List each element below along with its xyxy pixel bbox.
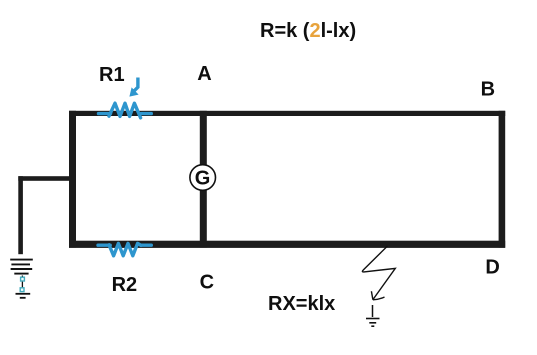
svg-text:R=k (2l-lx): R=k (2l-lx): [260, 20, 356, 42]
svg-text:C: C: [200, 271, 214, 293]
svg-text:R1: R1: [99, 64, 125, 86]
svg-text:RX=klx: RX=klx: [268, 293, 335, 315]
selection handle top: [21, 277, 25, 281]
label RX=klx: [268, 293, 335, 315]
wire bottom CD: [69, 241, 505, 248]
wire left side: [69, 111, 76, 248]
selection handle bottom: [20, 288, 24, 292]
svg-text:A: A: [197, 63, 211, 85]
node A label: [197, 63, 211, 85]
svg-text:R2: R2: [112, 274, 138, 296]
galvanometer G: [190, 165, 216, 191]
svg-text:G: G: [195, 168, 211, 190]
battery cell: [10, 260, 33, 274]
wire middle branch G-C: [200, 190, 207, 248]
node C label: [200, 271, 214, 293]
node B label: [481, 78, 495, 100]
ground lead under jockey: [372, 305, 374, 317]
wire right side B-D: [499, 111, 506, 248]
wire battery to ground: [21, 276, 23, 293]
svg-text:D: D: [485, 257, 499, 279]
arrow at R1: [129, 78, 138, 97]
svg-text:B: B: [481, 78, 495, 100]
title formula R=k (2l-lx): [260, 20, 356, 42]
wire top AB: [69, 111, 505, 116]
jockey lightning arrow: [362, 246, 395, 300]
wire left branch vertical to battery: [18, 176, 23, 254]
node D label: [485, 257, 499, 279]
earth ground symbol: [366, 319, 380, 327]
label R1: [99, 64, 125, 86]
resistor R1: [99, 103, 152, 118]
ground under battery: [16, 294, 31, 298]
resistor R2: [98, 243, 151, 255]
label R2: [112, 274, 138, 296]
wire middle branch A-G: [200, 111, 207, 166]
wire left branch horizontal: [18, 176, 73, 181]
